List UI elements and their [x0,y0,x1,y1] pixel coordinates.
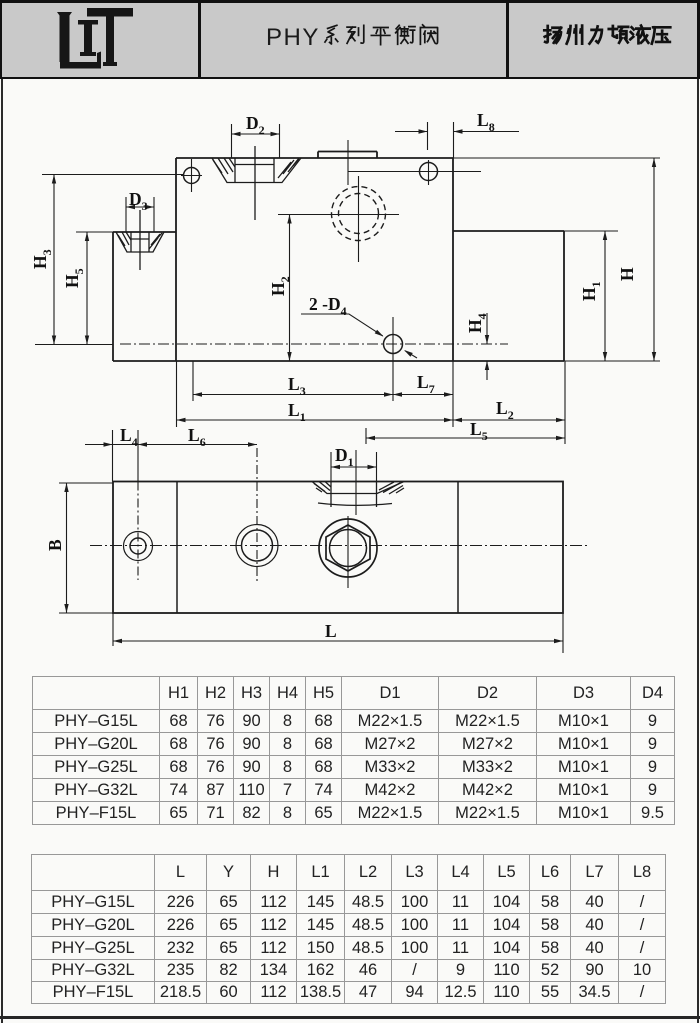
svg-text:H5: H5 [62,268,86,288]
svg-text:L2: L2 [496,398,514,422]
svg-text:D3: D3 [129,189,148,213]
svg-text:L7: L7 [417,372,435,396]
svg-text:L: L [325,621,337,641]
svg-text:L5: L5 [470,419,488,443]
svg-text:H2: H2 [268,276,292,296]
svg-text:H: H [617,267,637,281]
svg-text:L6: L6 [188,425,206,449]
svg-text:B: B [45,539,65,551]
svg-text:H3: H3 [30,249,54,269]
svg-text:H4: H4 [465,313,489,333]
svg-text:D2: D2 [246,113,265,137]
svg-text:L4: L4 [120,425,138,449]
svg-text:H1: H1 [579,281,603,301]
svg-text:L8: L8 [477,110,495,134]
